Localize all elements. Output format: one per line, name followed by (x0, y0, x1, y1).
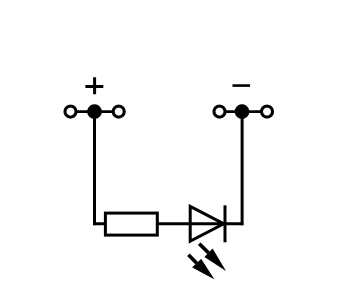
label: + (positive supply) (85, 77, 103, 94)
terminal X2 pin 3: open circle (262, 106, 273, 117)
junction: X2 center node dot (235, 104, 250, 119)
wire: X2 terminal rail (220, 110, 268, 113)
LED D1: light emission arrow (lower) (188, 255, 214, 280)
label: - (negative supply) (233, 84, 251, 87)
wire W2: bottom horizontal run (93, 222, 244, 225)
LED D1: cathode bar (224, 205, 227, 242)
wire W3: right vertical drop from - terminal (241, 112, 244, 226)
terminal X1 pin 3: open circle (113, 106, 124, 117)
terminal X2 pin 1: open circle (214, 106, 225, 117)
wire W1: left vertical drop from + terminal (93, 112, 96, 226)
resistor R1 (105, 213, 157, 235)
junction: X1 center node dot (87, 104, 102, 119)
LED D1: anode triangle (190, 206, 224, 241)
wire: X1 terminal rail (71, 110, 119, 113)
LED D1: light emission arrow (upper) (199, 244, 226, 271)
terminal X1 pin 1: open circle (65, 106, 76, 117)
